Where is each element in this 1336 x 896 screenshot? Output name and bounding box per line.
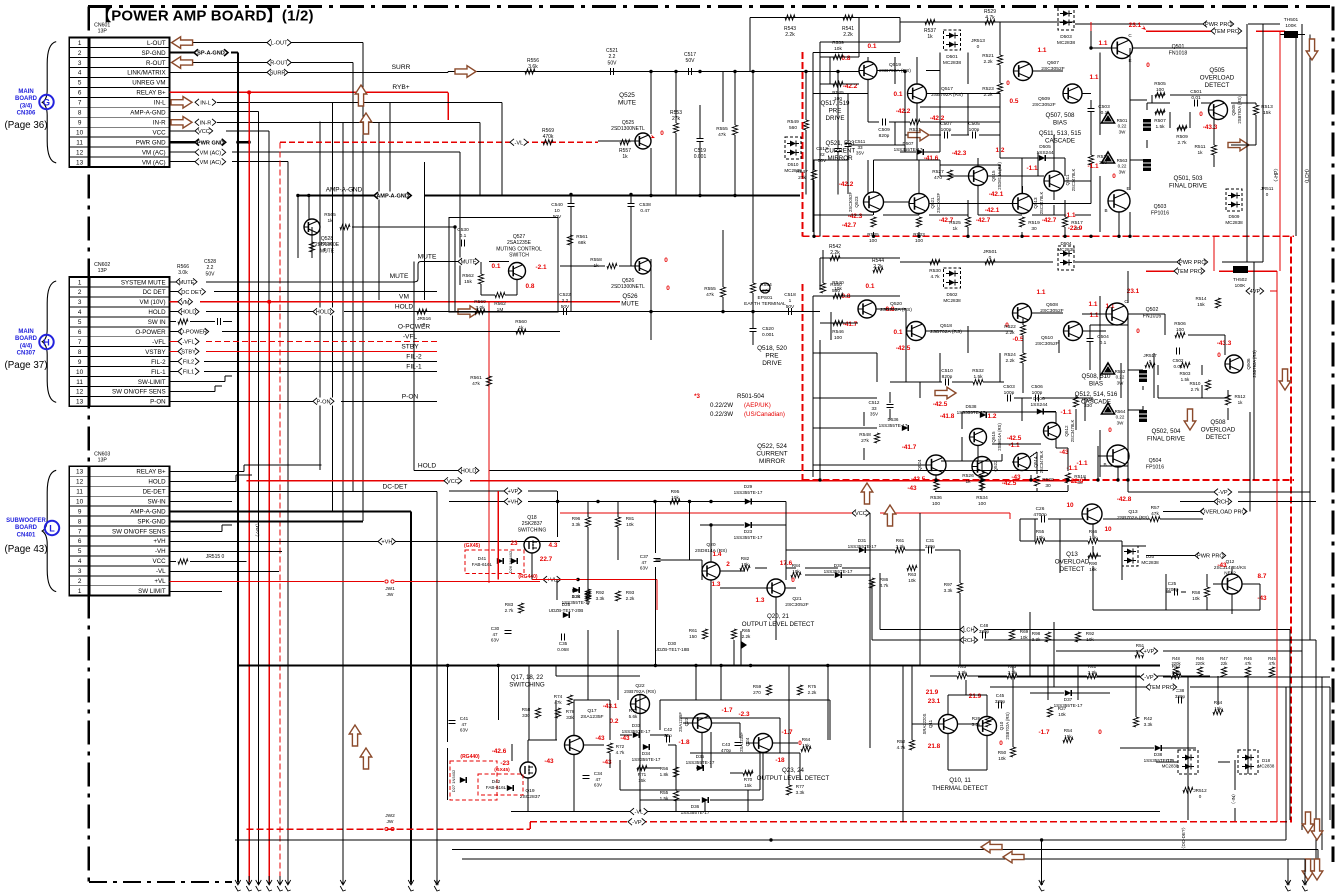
svg-text:CASCADE: CASCADE <box>1045 137 1075 144</box>
terminal 11 bottom <box>1039 876 1045 891</box>
svg-text:R510: R510 <box>1190 381 1201 386</box>
svg-text:0: 0 <box>999 740 1003 747</box>
svg-text:6: 6 <box>78 538 82 545</box>
svg-text:2SD1300NETL: 2SD1300NETL <box>611 284 645 290</box>
svg-text:R58: R58 <box>1192 590 1201 595</box>
svg-text:NEL?: NEL? <box>1224 571 1236 576</box>
EPS01 earth terminal <box>744 283 786 307</box>
svg-text:STBY: STBY <box>401 344 419 351</box>
up arrows bottom <box>861 483 896 526</box>
svg-text:CURRENT: CURRENT <box>825 147 855 154</box>
wire HOLD cn602 <box>170 304 449 316</box>
svg-text:Q23: Q23 <box>684 717 689 726</box>
svg-text:SWITCHING: SWITCHING <box>509 681 545 688</box>
svg-text:C30: C30 <box>491 626 500 631</box>
svg-text:-1.1: -1.1 <box>1008 442 1019 449</box>
R54b row <box>930 664 1210 679</box>
svg-text:E: E <box>1126 186 1129 191</box>
svg-text:3W: 3W <box>1119 129 1127 134</box>
svg-text:2200p: 2200p <box>1166 587 1179 592</box>
bottom extra h <box>528 560 796 800</box>
C511 <box>845 130 866 160</box>
svg-text:100: 100 <box>932 501 940 507</box>
svg-text:820p: 820p <box>942 374 953 380</box>
svg-text:2SB702A (RS): 2SB702A (RS) <box>1005 712 1010 740</box>
svg-text:R541: R541 <box>842 26 854 32</box>
svg-text:VCC: VCC <box>855 511 867 517</box>
svg-text:-1.8: -1.8 <box>678 739 689 746</box>
svg-text:1.5k: 1.5k <box>973 374 983 380</box>
svg-text:10k: 10k <box>1036 535 1044 540</box>
wire IN-R <box>195 118 480 126</box>
transistor Q21 <box>756 560 809 608</box>
svg-text:1SS355TE-17: 1SS355TE-17 <box>734 535 763 540</box>
R524 <box>1004 324 1025 364</box>
svg-text:-43: -43 <box>602 759 612 766</box>
wire VM(AC) 12 <box>170 148 460 156</box>
svg-text:HOLD: HOLD <box>461 469 477 475</box>
svg-text:R514: R514 <box>1196 296 1207 301</box>
ch2 bottom bus dots <box>818 478 1129 481</box>
wire final col ch1 <box>1128 48 1131 238</box>
red note R501-504 <box>694 393 785 418</box>
transistor Q529 <box>304 212 457 262</box>
svg-text:MUTING CONTROL: MUTING CONTROL <box>496 246 542 252</box>
arrow L-OUT <box>172 37 193 49</box>
svg-text:JR515 0: JR515 0 <box>206 554 225 560</box>
right verticals pack 2 <box>1247 24 1280 480</box>
transistor Q525 <box>611 92 651 149</box>
svg-text:5: 5 <box>78 548 82 555</box>
svg-text:2.2k: 2.2k <box>830 250 840 256</box>
svg-text:R-OUT: R-OUT <box>146 60 166 67</box>
C25 R58 <box>1166 581 1210 601</box>
svg-text:R562: R562 <box>494 301 506 307</box>
svg-text:R527: R527 <box>932 169 944 175</box>
net DC-DET vertical <box>1181 825 1186 851</box>
svg-text:R561: R561 <box>470 375 482 381</box>
svg-text:R52: R52 <box>897 739 906 744</box>
R92 R93 <box>585 590 635 601</box>
R26 R27 C45 <box>972 693 1067 727</box>
svg-text:21.8: 21.8 <box>928 743 941 750</box>
svg-text:SW ON/OFF SENS: SW ON/OFF SENS <box>112 528 166 535</box>
svg-text:0: 0 <box>1136 328 1140 335</box>
svg-text:OVERLOAD PRO: OVERLOAD PRO <box>1201 510 1246 516</box>
svg-text:2SC3052F: 2SC3052F <box>848 192 853 212</box>
q21 to R84 wires <box>786 550 870 575</box>
svg-text:50V: 50V <box>206 271 216 277</box>
svg-text:10k: 10k <box>1086 637 1094 642</box>
R514 <box>1196 296 1221 308</box>
svg-text:3: 3 <box>78 299 82 306</box>
wire q503 right <box>1119 160 1147 236</box>
svg-text:9: 9 <box>78 508 82 515</box>
R547 <box>796 169 816 181</box>
svg-text:R540: R540 <box>832 280 844 286</box>
svg-text:R561: R561 <box>576 234 588 240</box>
svg-text:2SC3052F: 2SC3052F <box>1035 341 1058 347</box>
terminal 7 bottom <box>340 876 346 891</box>
board border top dashed <box>88 5 1336 8</box>
bus vertical x343 <box>342 122 344 882</box>
svg-text:10k: 10k <box>741 562 749 567</box>
bus vertical x390 <box>389 102 391 194</box>
svg-text:RELAY B+: RELAY B+ <box>136 469 166 476</box>
svg-text:21.9: 21.9 <box>926 689 939 696</box>
svg-text:PWR PRO: PWR PRO <box>1179 260 1206 266</box>
bus vertical x363 <box>362 43 364 521</box>
svg-text:R63: R63 <box>1008 664 1017 669</box>
transistor Q503 <box>1064 173 1169 232</box>
svg-text:P-ON: P-ON <box>150 399 165 406</box>
svg-text:HOLD: HOLD <box>181 310 197 316</box>
svg-text:OVERLOAD: OVERLOAD <box>1200 74 1235 81</box>
svg-text:10k: 10k <box>1192 596 1200 601</box>
svg-text:10: 10 <box>76 129 84 136</box>
svg-text:3.0k: 3.0k <box>475 305 485 311</box>
D510 dual diode <box>784 137 802 173</box>
svg-text:23.1: 23.1 <box>1127 288 1140 295</box>
svg-text:BOARD: BOARD <box>15 336 38 342</box>
svg-text:0: 0 <box>1006 80 1010 87</box>
svg-text:D25: D25 <box>562 602 571 607</box>
dual diode D504 <box>1057 241 1075 270</box>
wire Q501 base column <box>1089 22 1111 50</box>
svg-text:1SS244: 1SS244 <box>1030 402 1047 408</box>
svg-text:C48: C48 <box>980 623 989 628</box>
svg-text:C42: C42 <box>664 727 673 732</box>
svg-text:-42.3: -42.3 <box>848 213 863 220</box>
svg-text:FINAL DRIVE: FINAL DRIVE <box>1169 182 1207 189</box>
svg-text:21.9: 21.9 <box>969 693 982 700</box>
R565b R549 <box>716 72 808 195</box>
svg-text:0.22: 0.22 <box>1116 415 1125 420</box>
svg-text:68k: 68k <box>578 240 586 246</box>
svg-text:100: 100 <box>915 238 923 244</box>
svg-text:0.1: 0.1 <box>1100 340 1107 346</box>
ch1 grid horizontals <box>813 94 1091 216</box>
svg-text:13P: 13P <box>98 457 108 463</box>
svg-text:D501: D501 <box>946 54 958 60</box>
svg-text:330p: 330p <box>925 544 936 549</box>
svg-text:2SA1235F: 2SA1235F <box>678 712 683 732</box>
C530 <box>457 227 469 247</box>
svg-text:R555: R555 <box>716 126 728 132</box>
wire +VH <box>170 538 560 546</box>
svg-text:R78: R78 <box>566 709 575 714</box>
vertical x502 <box>501 102 503 194</box>
transistor Q522 <box>972 457 1017 488</box>
R99 <box>572 588 591 599</box>
svg-text:100: 100 <box>1176 327 1184 333</box>
svg-text:D36: D36 <box>691 804 700 809</box>
svg-text:FP1016: FP1016 <box>1151 210 1169 216</box>
svg-text:R55: R55 <box>1036 529 1045 534</box>
svg-text:-2.1: -2.1 <box>535 264 546 271</box>
svg-text:AMP-A-GND: AMP-A-GND <box>376 194 409 200</box>
svg-text:2: 2 <box>726 561 730 568</box>
transistor Q508 <box>1005 289 1063 329</box>
svg-text:D538: D538 <box>966 404 977 409</box>
C35 <box>557 634 569 652</box>
D35 R71 <box>637 754 715 783</box>
wire SURR <box>170 64 860 77</box>
svg-text:1SS355TE-17: 1SS355TE-17 <box>622 729 651 734</box>
rail y859 <box>462 858 1318 860</box>
svg-text:-41.7: -41.7 <box>843 321 858 328</box>
svg-text:-VFL: -VFL <box>152 339 166 346</box>
svg-text:4.7k: 4.7k <box>880 583 889 588</box>
label Q17 18 22 SWITCHING <box>509 674 545 688</box>
svg-text:1k: 1k <box>927 34 933 40</box>
R548 <box>859 432 879 444</box>
transistor Q22 <box>603 683 657 725</box>
svg-text:+VH: +VH <box>507 500 518 506</box>
svg-text:MC2838: MC2838 <box>1057 247 1075 252</box>
svg-text:R534: R534 <box>976 495 988 501</box>
net -VP mid <box>978 673 1330 681</box>
board border left dashed <box>88 7 91 882</box>
svg-text:VSTBY: VSTBY <box>145 349 165 356</box>
svg-text:47: 47 <box>492 632 498 637</box>
D507 <box>894 141 940 155</box>
svg-text:R522: R522 <box>1004 324 1016 330</box>
terminal 5 bottom <box>277 876 283 891</box>
svg-text:1: 1 <box>235 881 240 884</box>
wire +VH2 <box>449 498 786 506</box>
R57 <box>1103 505 1203 522</box>
svg-text:L-OUT: L-OUT <box>271 41 288 47</box>
svg-text:BIAS: BIAS <box>1053 119 1067 126</box>
svg-text:3.3k: 3.3k <box>796 790 805 795</box>
D538 <box>957 404 987 418</box>
Q527 mute switch box <box>449 218 558 313</box>
diodes in GX45 <box>497 558 517 564</box>
svg-text:(US/Canadian): (US/Canadian) <box>744 411 785 418</box>
svg-text:4: 4 <box>267 881 272 884</box>
svg-text:R523: R523 <box>982 86 994 92</box>
svg-text:JR513: JR513 <box>971 38 985 44</box>
svg-text:R-OUT: R-OUT <box>270 61 288 67</box>
wire PWR PRO 3 <box>1146 552 1226 560</box>
svg-text:D506: D506 <box>1033 396 1045 402</box>
vertical x437 DC-DET <box>436 491 438 881</box>
svg-text:Q522, 524: Q522, 524 <box>757 443 787 450</box>
vertical x480b <box>479 122 481 194</box>
wire Q525 emitter down <box>650 148 652 195</box>
svg-text:C43: C43 <box>722 742 731 747</box>
R64b R42 <box>1133 700 1223 727</box>
svg-text:-41.8: -41.8 <box>940 413 955 420</box>
section label Q518 520 PRE DRIVE <box>757 345 787 367</box>
svg-text:C540: C540 <box>551 202 563 208</box>
svg-text:15k: 15k <box>744 783 752 788</box>
svg-text:270: 270 <box>753 690 761 695</box>
svg-text:HOLD: HOLD <box>316 310 332 316</box>
svg-text:1: 1 <box>78 40 82 47</box>
svg-text:-1.7: -1.7 <box>721 707 732 714</box>
wire OVERLOAD PRO <box>1163 412 1250 516</box>
svg-text:100p: 100p <box>1032 390 1043 396</box>
bus vertical 2 <box>258 112 260 882</box>
C48 R69 <box>979 623 1029 640</box>
svg-text:D505: D505 <box>1039 144 1051 150</box>
svg-text:D510: D510 <box>788 162 799 167</box>
svg-text:R65: R65 <box>742 628 751 633</box>
wire -VL cn603 <box>170 571 279 573</box>
ch1 bottom bus dots <box>812 235 1120 238</box>
svg-text:Q526: Q526 <box>622 293 638 300</box>
D19 dual diode <box>1162 750 1198 774</box>
svg-text:(RG440): (RG440) <box>460 754 480 760</box>
svg-text:TEM PRO: TEM PRO <box>1149 685 1175 691</box>
svg-text:Q17: Q17 <box>587 708 597 714</box>
R555 R554 R550 <box>704 250 842 312</box>
svg-text:-VL: -VL <box>515 140 524 146</box>
svg-text:3: 3 <box>256 881 261 884</box>
svg-text:D38: D38 <box>1154 752 1163 757</box>
svg-text:MUTE: MUTE <box>179 280 195 286</box>
vertical R555 R554 cols <box>723 72 753 284</box>
svg-text:10k: 10k <box>998 756 1006 761</box>
svg-text:10: 10 <box>1104 526 1112 533</box>
svg-text:10k: 10k <box>1058 712 1066 717</box>
svg-text:-VP: -VP <box>632 820 642 826</box>
terminal 8 bottom <box>408 876 414 891</box>
transistor Q524 <box>902 444 946 492</box>
wire top rail y17.5 <box>750 15 900 72</box>
svg-text:-1.1: -1.1 <box>1060 409 1071 416</box>
svg-text:35V: 35V <box>856 151 865 156</box>
svg-text:R72: R72 <box>616 744 625 749</box>
svg-text:Q20, 21: Q20, 21 <box>767 613 790 620</box>
D536 diode ch2 <box>879 417 909 431</box>
D37 <box>1030 690 1110 708</box>
svg-text:-42.5: -42.5 <box>911 476 926 483</box>
net +VP mid <box>1056 647 1302 655</box>
svg-text:3.3k: 3.3k <box>944 588 953 593</box>
svg-text:HOLD: HOLD <box>148 479 166 486</box>
svg-text:15k: 15k <box>1263 110 1271 116</box>
svg-text:SWITCHING: SWITCHING <box>518 527 547 533</box>
label Q505 OVERLOAD DETECT <box>1200 67 1235 89</box>
svg-text:LCH: LCH <box>963 628 974 634</box>
svg-text:R560: R560 <box>474 299 486 305</box>
svg-text:Q527: Q527 <box>513 234 525 240</box>
svg-text:0: 0 <box>1108 427 1112 434</box>
ch1 red dash left edge <box>802 52 804 236</box>
rail y840 <box>235 838 1286 841</box>
svg-text:R563: R563 <box>1117 158 1128 163</box>
D25 zener <box>549 602 584 618</box>
transistor Q23 <box>678 707 750 746</box>
svg-text:47k: 47k <box>472 381 480 387</box>
red vals Q17 <box>595 735 630 766</box>
svg-text:JW: JW <box>387 819 394 825</box>
svg-text:P-ON: P-ON <box>402 393 419 400</box>
net -VP left corner <box>1030 612 1054 687</box>
wire VCC pin10 <box>170 127 270 135</box>
svg-text:10k: 10k <box>908 578 916 583</box>
R515 <box>1088 135 1109 200</box>
svg-text:0.1: 0.1 <box>866 283 875 290</box>
svg-text:-42.5: -42.5 <box>896 345 911 352</box>
svg-text:Q502: Q502 <box>1146 307 1159 313</box>
svg-text:2SB702A (RS): 2SB702A (RS) <box>1117 515 1149 521</box>
TH501 <box>1280 17 1305 38</box>
svg-text:MUTE: MUTE <box>618 100 636 107</box>
svg-text:-43: -43 <box>1011 474 1021 481</box>
R61 R65b <box>689 628 751 639</box>
transistor Q513 <box>976 191 1057 224</box>
svg-text:5.6k: 5.6k <box>629 714 638 719</box>
svg-text:VM (AC): VM (AC) <box>200 150 222 156</box>
wire q504 right <box>1118 365 1228 480</box>
svg-text:R558: R558 <box>590 257 602 263</box>
svg-text:0: 0 <box>1146 62 1150 69</box>
svg-text:FIL-2: FIL-2 <box>151 359 166 366</box>
svg-text:63V: 63V <box>594 783 603 788</box>
svg-text:+VP: +VP <box>1144 649 1155 655</box>
svg-text:SYSTEM MUTE: SYSTEM MUTE <box>121 279 166 286</box>
transistor Q521 <box>909 193 954 224</box>
arrow HOLD <box>458 306 479 318</box>
svg-text:(4/4): (4/4) <box>20 343 32 349</box>
svg-text:R529: R529 <box>984 9 996 15</box>
D30 zener <box>655 641 747 652</box>
ch1 mesh extra <box>848 53 1054 216</box>
wire VCC cn603 <box>170 554 247 564</box>
arrow SURR <box>455 66 476 78</box>
svg-text:R64: R64 <box>802 737 811 742</box>
svg-text:SWITCH: SWITCH <box>509 253 529 259</box>
svg-text:3.3k: 3.3k <box>596 596 605 601</box>
svg-text:IN-R: IN-R <box>153 120 166 127</box>
arrow IN-R <box>171 117 192 129</box>
svg-text:DC DET: DC DET <box>143 289 166 296</box>
svg-text:-42.1: -42.1 <box>989 191 1004 198</box>
wire VCC tap <box>560 509 1010 517</box>
svg-text:R544: R544 <box>872 258 884 264</box>
svg-text:DC-DET: DC-DET <box>383 483 408 490</box>
svg-text:23.1: 23.1 <box>928 698 941 705</box>
svg-text:C26: C26 <box>1036 506 1045 512</box>
wire -VL bottom <box>511 808 1160 816</box>
svg-text:-43: -43 <box>620 735 630 742</box>
R505 R507 C501 <box>1154 81 1202 130</box>
svg-text:R81: R81 <box>626 516 635 521</box>
wire DE-DET <box>170 483 437 491</box>
svg-text:0.8: 0.8 <box>526 283 535 290</box>
svg-text:47: 47 <box>595 777 601 782</box>
transistor Q511 <box>1026 163 1098 191</box>
svg-text:2SK2837: 2SK2837 <box>522 521 543 527</box>
svg-text:1.5k: 1.5k <box>1155 124 1165 130</box>
ch2 red dash bottom edge <box>803 479 1295 481</box>
svg-text:MUTE: MUTE <box>390 273 409 280</box>
svg-text:13: 13 <box>1303 880 1308 886</box>
svg-text:CN306: CN306 <box>17 111 36 117</box>
wire IN-L <box>195 98 502 106</box>
red 0 at Q525 <box>650 130 665 140</box>
svg-text:SUBWOOFER: SUBWOOFER <box>6 518 46 524</box>
svg-text:PWR GND: PWR GND <box>136 139 166 146</box>
svg-text:JW1: JW1 <box>385 586 395 592</box>
svg-text:R532: R532 <box>972 368 984 374</box>
svg-text:R503: R503 <box>1180 371 1191 376</box>
svg-text:C501: C501 <box>1190 89 1202 95</box>
